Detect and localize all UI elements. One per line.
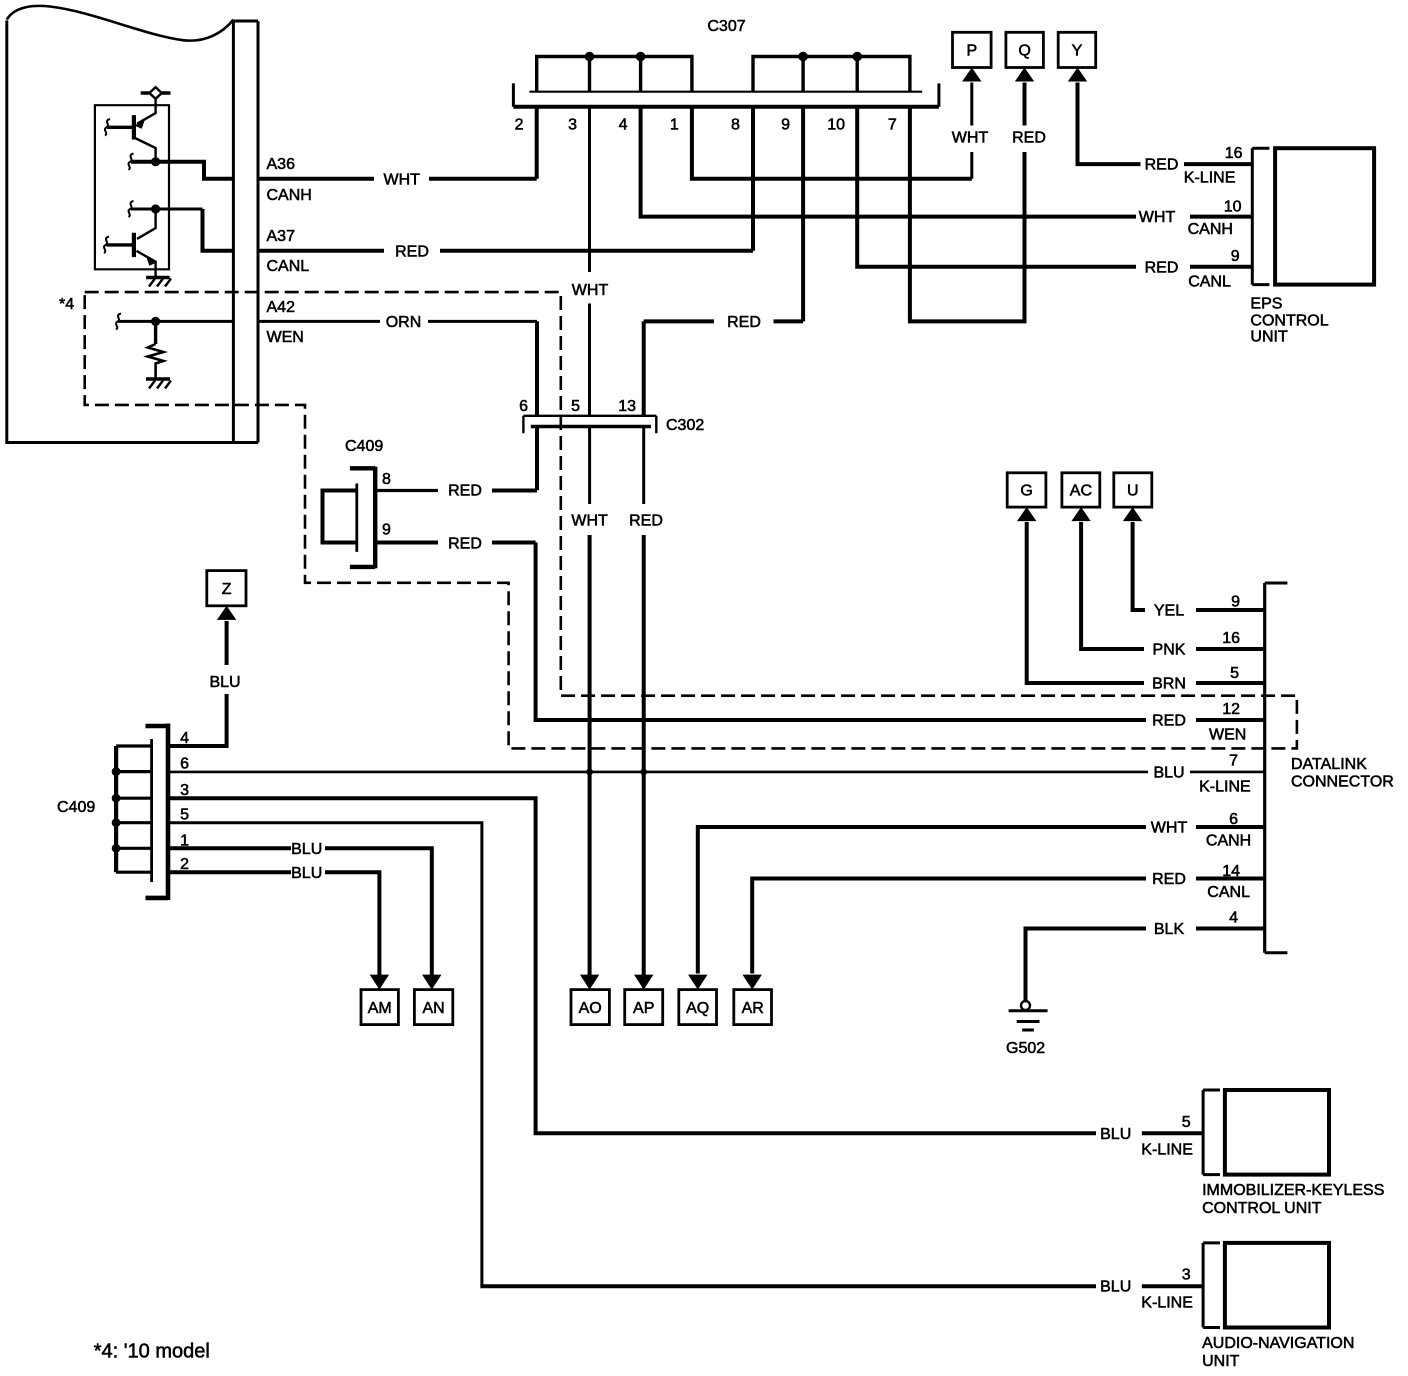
svg-text:RED: RED <box>395 243 429 260</box>
svg-text:3: 3 <box>568 117 577 134</box>
svg-text:2: 2 <box>180 856 189 873</box>
svg-text:4: 4 <box>1229 910 1238 927</box>
svg-text:C409: C409 <box>57 799 95 816</box>
svg-text:CONTROL UNIT: CONTROL UNIT <box>1202 1200 1322 1217</box>
svg-text:RED: RED <box>448 536 482 553</box>
svg-text:5: 5 <box>1230 665 1239 682</box>
svg-text:AQ: AQ <box>686 1000 709 1017</box>
svg-text:2: 2 <box>515 117 524 134</box>
svg-text:3: 3 <box>1182 1267 1191 1284</box>
svg-text:10: 10 <box>1224 199 1242 216</box>
svg-text:WHT: WHT <box>952 130 989 147</box>
svg-text:UNIT: UNIT <box>1202 1353 1240 1370</box>
svg-text:IMMOBILIZER-KEYLESS: IMMOBILIZER-KEYLESS <box>1202 1182 1384 1199</box>
svg-text:C302: C302 <box>666 417 704 434</box>
svg-text:CONNECTOR: CONNECTOR <box>1291 774 1394 791</box>
svg-text:14: 14 <box>1222 863 1240 880</box>
svg-text:DATALINK: DATALINK <box>1291 756 1367 773</box>
svg-text:K-LINE: K-LINE <box>1199 779 1251 796</box>
svg-text:7: 7 <box>1229 753 1238 770</box>
svg-text:WHT: WHT <box>571 513 608 530</box>
svg-text:6: 6 <box>1229 811 1238 828</box>
svg-text:BLU: BLU <box>1100 1279 1131 1296</box>
svg-text:5: 5 <box>571 398 580 415</box>
svg-text:BLK: BLK <box>1154 921 1185 938</box>
svg-text:AN: AN <box>422 1000 444 1017</box>
svg-text:CANL: CANL <box>267 258 310 275</box>
svg-text:WEN: WEN <box>267 329 304 346</box>
svg-text:G: G <box>1020 483 1032 500</box>
svg-text:RED: RED <box>448 483 482 500</box>
svg-text:4: 4 <box>619 117 628 134</box>
svg-text:RED: RED <box>629 513 663 530</box>
svg-text:6: 6 <box>519 398 528 415</box>
svg-text:C409: C409 <box>345 438 383 455</box>
svg-text:5: 5 <box>180 807 189 824</box>
svg-text:YEL: YEL <box>1154 603 1184 620</box>
svg-text:CONTROL: CONTROL <box>1250 313 1328 330</box>
svg-text:EPS: EPS <box>1250 295 1282 312</box>
svg-text:CANL: CANL <box>1207 884 1250 901</box>
svg-text:4: 4 <box>180 730 189 747</box>
svg-text:BLU: BLU <box>1153 765 1184 782</box>
svg-text:UNIT: UNIT <box>1250 329 1288 346</box>
svg-text:CANL: CANL <box>1188 274 1231 291</box>
svg-text:9: 9 <box>781 117 790 134</box>
svg-text:Z: Z <box>222 581 232 598</box>
svg-text:5: 5 <box>1182 1114 1191 1131</box>
svg-text:BLU: BLU <box>291 841 322 858</box>
svg-text:RED: RED <box>1145 259 1179 276</box>
svg-text:12: 12 <box>1222 701 1240 718</box>
svg-text:9: 9 <box>1231 594 1240 611</box>
svg-text:9: 9 <box>382 522 391 539</box>
svg-text:AUDIO-NAVIGATION: AUDIO-NAVIGATION <box>1202 1335 1354 1352</box>
svg-text:WHT: WHT <box>383 171 420 188</box>
svg-text:8: 8 <box>731 117 740 134</box>
svg-text:CANH: CANH <box>1188 221 1233 238</box>
svg-text:BLU: BLU <box>209 674 240 691</box>
svg-text:RED: RED <box>1152 713 1186 730</box>
svg-text:RED: RED <box>1152 871 1186 888</box>
svg-text:AC: AC <box>1070 483 1092 500</box>
svg-text:A42: A42 <box>267 299 296 316</box>
svg-text:8: 8 <box>382 471 391 488</box>
svg-text:BLU: BLU <box>1100 1126 1131 1143</box>
svg-text:K-LINE: K-LINE <box>1184 170 1236 187</box>
svg-text:WHT: WHT <box>1151 820 1188 837</box>
svg-text:16: 16 <box>1225 145 1243 162</box>
svg-text:CANH: CANH <box>1206 833 1251 850</box>
svg-text:A36: A36 <box>267 156 296 173</box>
svg-text:10: 10 <box>827 117 845 134</box>
svg-text:WEN: WEN <box>1209 727 1246 744</box>
svg-text:K-LINE: K-LINE <box>1141 1294 1193 1311</box>
svg-text:Y: Y <box>1072 43 1083 60</box>
svg-text:AM: AM <box>368 1000 392 1017</box>
svg-text:1: 1 <box>670 117 679 134</box>
svg-text:PNK: PNK <box>1153 642 1186 659</box>
svg-text:G502: G502 <box>1006 1040 1045 1057</box>
svg-text:A37: A37 <box>267 228 296 245</box>
svg-text:*4: '10 model: *4: '10 model <box>94 1341 210 1363</box>
svg-text:16: 16 <box>1222 630 1240 647</box>
svg-text:WHT: WHT <box>1139 209 1176 226</box>
svg-text:C307: C307 <box>707 18 745 35</box>
svg-text:U: U <box>1127 483 1139 500</box>
svg-text:7: 7 <box>888 117 897 134</box>
svg-text:*4: *4 <box>59 296 74 313</box>
svg-text:BLU: BLU <box>291 865 322 882</box>
svg-text:9: 9 <box>1231 248 1240 265</box>
svg-text:AP: AP <box>633 1000 654 1017</box>
svg-text:P: P <box>966 43 977 60</box>
svg-text:RED: RED <box>1145 157 1179 174</box>
svg-text:AO: AO <box>579 1000 602 1017</box>
svg-text:WHT: WHT <box>572 282 609 299</box>
svg-text:BRN: BRN <box>1152 676 1186 693</box>
svg-text:AR: AR <box>742 1000 764 1017</box>
svg-text:ORN: ORN <box>386 314 422 331</box>
svg-text:6: 6 <box>180 756 189 773</box>
svg-text:RED: RED <box>727 314 761 331</box>
svg-text:3: 3 <box>180 782 189 799</box>
svg-text:RED: RED <box>1012 130 1046 147</box>
svg-text:13: 13 <box>618 398 636 415</box>
svg-text:Q: Q <box>1018 43 1030 60</box>
svg-text:1: 1 <box>180 832 189 849</box>
svg-text:CANH: CANH <box>267 187 312 204</box>
svg-text:K-LINE: K-LINE <box>1141 1141 1193 1158</box>
